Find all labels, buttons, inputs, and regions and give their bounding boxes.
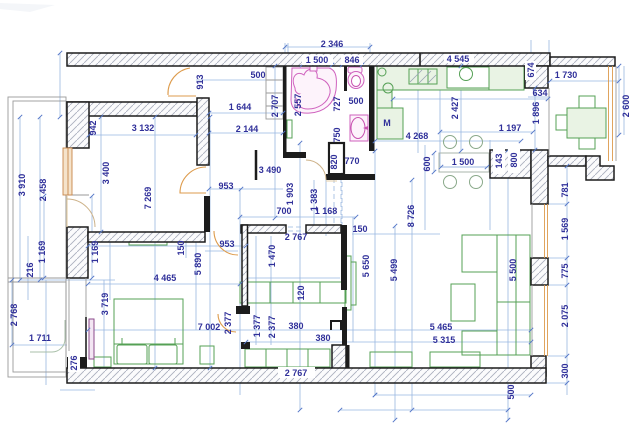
loggia bottom band: [548, 156, 586, 166]
svg-text:846: 846: [344, 55, 359, 65]
svg-text:5 500: 5 500: [508, 259, 518, 282]
bathroom door arc: [306, 160, 326, 180]
balcony divider: [8, 277, 66, 279]
shaft box: [329, 143, 344, 174]
svg-text:380: 380: [315, 333, 330, 343]
closet top wall left: [241, 225, 286, 233]
bedroom tv bracket: [85, 317, 87, 360]
svg-text:1 569: 1 569: [560, 218, 570, 241]
walls: [67, 53, 615, 383]
svg-text:750: 750: [332, 127, 342, 142]
dining chairs: [444, 136, 457, 149]
closet bottom-left black stub: [331, 321, 341, 330]
hall cabinet column: [266, 67, 283, 119]
svg-text:2 707: 2 707: [270, 95, 280, 118]
svg-text:143: 143: [494, 153, 504, 168]
kitchen small circle: [383, 83, 393, 93]
svg-text:775: 775: [560, 263, 570, 278]
closet shelf row top: [240, 282, 346, 303]
bathtub tap: [310, 66, 317, 71]
svg-text:1 197: 1 197: [499, 123, 522, 133]
svg-text:216: 216: [25, 262, 35, 277]
svg-text:953: 953: [218, 181, 233, 191]
closet right wall: [341, 225, 347, 290]
bedroom top wall band: [88, 232, 205, 242]
hall wardrobe edge bar: [255, 150, 258, 180]
balcony window top-left: [63, 148, 72, 195]
svg-text:5 465: 5 465: [430, 322, 453, 332]
loggia passage edge: [548, 88, 550, 156]
svg-text:781: 781: [560, 182, 570, 197]
svg-text:380: 380: [288, 321, 303, 331]
closet left wall stub: [236, 306, 250, 314]
left window lines: [68, 278, 70, 357]
bedroom-closet wall: [242, 225, 248, 306]
svg-text:1 169: 1 169: [90, 241, 100, 264]
bathroom-kitchen wall: [369, 66, 375, 151]
tv cabinet bedroom: [94, 357, 111, 367]
svg-text:7 002: 7 002: [198, 322, 221, 332]
wall junction tick: [419, 53, 421, 66]
svg-text:942: 942: [88, 120, 98, 135]
bathroom sw corner wall: [283, 133, 306, 158]
svg-text:1 711: 1 711: [29, 333, 51, 343]
svg-text:500: 500: [250, 70, 265, 80]
opening dashes bath-closet: [333, 178, 335, 226]
bedroom tv: [89, 319, 94, 359]
left wall bottom stub: [67, 357, 87, 370]
loggia chair bottom: [579, 138, 595, 149]
svg-text:7 269: 7 269: [143, 187, 153, 210]
svg-text:1 383: 1 383: [309, 189, 319, 212]
svg-text:700: 700: [276, 206, 291, 216]
svg-text:1 500: 1 500: [452, 157, 475, 167]
svg-text:2 768: 2 768: [9, 304, 19, 327]
loggia chair top: [579, 96, 595, 108]
svg-text:2 144: 2 144: [236, 124, 259, 134]
closet top wall right: [306, 225, 341, 233]
loggia table: [567, 108, 606, 138]
furniture: [8, 66, 606, 377]
loggia chair left: [556, 115, 567, 130]
svg-text:913: 913: [195, 74, 205, 89]
svg-text:2 557: 2 557: [293, 94, 303, 117]
svg-text:2 377: 2 377: [223, 312, 233, 335]
closet shelf row bottom: [245, 349, 330, 367]
right wall mid block: [531, 258, 548, 285]
balcony door threshold: [66, 194, 89, 196]
pillow left: [117, 345, 147, 364]
svg-text:5 890: 5 890: [193, 253, 203, 276]
svg-text:1 470: 1 470: [267, 245, 277, 268]
svg-text:1 500: 1 500: [306, 55, 329, 65]
horizontals: [285, 46, 370, 48]
right wall bottom corner: [531, 356, 546, 376]
doors and windows: [63, 66, 616, 356]
kitchen tall cabinet: [377, 90, 392, 108]
second band wall right part: [197, 98, 209, 165]
closet lower door arc: [218, 314, 236, 332]
svg-text:3 490: 3 490: [259, 165, 282, 175]
right wall upper block: [531, 150, 548, 204]
svg-text:3 910: 3 910: [17, 174, 27, 197]
closet right lower thin wall: [342, 307, 347, 345]
toilet tank: [348, 67, 362, 73]
closet right lower hatched wall: [332, 345, 346, 370]
svg-text:120: 120: [296, 285, 306, 300]
loggia bottom right corner: [586, 156, 614, 180]
bathtub outer: [291, 68, 336, 113]
room1-hall lower wall stub: [204, 196, 210, 232]
svg-text:1 169: 1 169: [37, 241, 47, 264]
hall L wall block: [490, 150, 531, 178]
kitchen stove: [409, 69, 437, 84]
nightstand: [200, 346, 214, 364]
svg-text:800: 800: [509, 152, 519, 167]
top outer wall: [67, 53, 550, 66]
svg-text:1 377: 1 377: [252, 315, 262, 338]
top-left corner block: [67, 102, 89, 148]
svg-text:300: 300: [560, 363, 570, 378]
svg-text:2 377: 2 377: [267, 316, 277, 339]
kitchen knob: [378, 68, 386, 76]
bottom outer wall: [67, 368, 546, 383]
bath wc partition: [344, 66, 347, 91]
toilet bowl: [348, 72, 364, 89]
second band wall left part: [67, 102, 197, 116]
svg-text:2 767: 2 767: [285, 232, 308, 242]
sofa bottom section: [462, 331, 497, 355]
svg-text:727: 727: [332, 96, 342, 111]
svg-text:M: M: [383, 118, 391, 128]
living tv unit: [345, 256, 351, 310]
kitchen counter: [377, 66, 524, 90]
kitchen sink: [460, 68, 473, 81]
svg-text:953: 953: [219, 239, 234, 249]
svg-text:2 075: 2 075: [560, 305, 570, 328]
pillow right: [149, 345, 177, 364]
bed corner marks: [114, 338, 122, 344]
svg-text:2 458: 2 458: [38, 179, 48, 202]
svg-text:2 600: 2 600: [621, 95, 631, 118]
living sideboard left: [370, 352, 412, 367]
svg-text:4 465: 4 465: [154, 273, 177, 283]
svg-text:276: 276: [69, 355, 79, 370]
towel rail: [287, 120, 292, 138]
svg-text:5 315: 5 315: [433, 335, 456, 345]
top strip door arc: [168, 68, 190, 95]
svg-text:500: 500: [348, 96, 363, 106]
loggia top wall: [550, 57, 615, 66]
svg-text:3 400: 3 400: [101, 162, 111, 185]
bedroom door arc: [214, 231, 238, 255]
kitchen wall pink edge: [373, 108, 375, 151]
washbasin: [350, 115, 368, 141]
kitchen right wall block: [525, 66, 548, 88]
svg-text:770: 770: [344, 156, 359, 166]
bed: [114, 299, 183, 344]
sofa long section: [497, 235, 530, 355]
svg-text:674: 674: [526, 62, 536, 77]
bathtub inner rim: [296, 78, 330, 109]
svg-text:1 896: 1 896: [531, 102, 541, 125]
left wall mid block: [67, 227, 88, 278]
svg-text:2 767: 2 767: [285, 368, 308, 378]
balcony outline left: [8, 97, 66, 377]
room1 door arc: [180, 167, 206, 193]
svg-text:1 644: 1 644: [229, 102, 252, 112]
svg-text:4 545: 4 545: [447, 54, 470, 64]
svg-text:150: 150: [176, 240, 186, 255]
svg-text:150: 150: [352, 224, 367, 234]
wall under shaft to kitchen: [326, 174, 375, 180]
svg-text:3 132: 3 132: [132, 123, 155, 133]
svg-text:634: 634: [532, 88, 547, 98]
living window lower: [544, 285, 546, 356]
loggia window right: [608, 66, 610, 161]
sofa chaise: [462, 235, 497, 272]
balcony partition path bottom-left: [30, 320, 65, 352]
svg-text:5 499: 5 499: [389, 259, 399, 282]
svg-text:500: 500: [506, 384, 516, 399]
svg-text:3 719: 3 719: [100, 293, 110, 316]
svg-text:2 346: 2 346: [321, 39, 344, 49]
bed base: [114, 344, 183, 364]
living sideboard right: [430, 352, 480, 367]
svg-text:8 726: 8 726: [406, 205, 416, 228]
bedroom shelf: [129, 240, 167, 245]
fridge: [377, 108, 403, 139]
svg-text:4 268: 4 268: [406, 131, 429, 141]
coffee table: [451, 284, 475, 321]
text backing boxes: [68, 54, 536, 378]
svg-text:1 730: 1 730: [555, 70, 578, 80]
svg-text:1 903: 1 903: [285, 183, 295, 206]
dining table: [439, 153, 489, 172]
kitchen sink panel: [447, 67, 489, 88]
balcony door leaf: [66, 196, 68, 227]
bathtub inner lobe: [293, 69, 317, 94]
svg-text:600: 600: [422, 156, 432, 171]
top strip door leaf: [168, 95, 196, 97]
bathroom left wall: [283, 66, 287, 133]
living window upper: [544, 204, 546, 258]
svg-text:2 427: 2 427: [450, 97, 460, 120]
balcony door arc: [67, 199, 95, 227]
svg-text:820: 820: [329, 154, 339, 169]
closet doorway dashes: [288, 226, 304, 228]
svg-text:5 650: 5 650: [361, 255, 371, 278]
